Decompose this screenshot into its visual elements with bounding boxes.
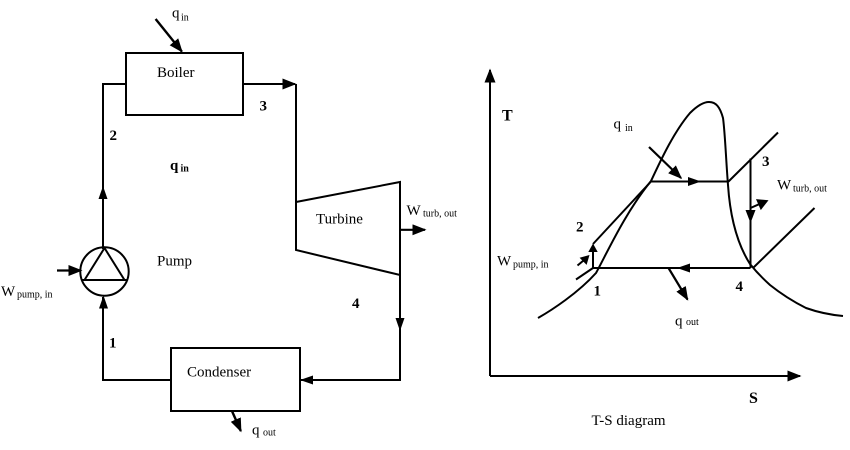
svg-text:4: 4 <box>352 296 360 312</box>
isobar return line from 4 <box>753 208 815 268</box>
wire condenser to pump (state 1) <box>103 297 171 380</box>
svg-text:turb, out: turb, out <box>793 184 827 195</box>
turbine trapezoid T <box>296 182 400 275</box>
arrow left into condenser <box>300 376 313 385</box>
pump chord line <box>82 279 127 281</box>
W_turb,out arrow <box>400 229 425 231</box>
boiler box B <box>126 53 243 115</box>
svg-text:Turbine: Turbine <box>316 212 363 228</box>
svg-text:pump, in: pump, in <box>513 260 549 271</box>
svg-text:out: out <box>686 317 699 328</box>
q_out heat arrow from condenser <box>232 411 241 431</box>
arrow down on expansion line <box>746 210 756 223</box>
wire boiler to pump (state 2) <box>103 84 126 249</box>
condensation line 4 to 1 <box>593 267 751 269</box>
arrow left on condensation line <box>677 264 690 273</box>
pump compression arrow 1 to 2 (T-S) <box>592 247 594 268</box>
svg-text:2: 2 <box>576 220 584 236</box>
turbine expansion line 3 to 4 <box>750 159 752 269</box>
q_out arrow (T-S) <box>669 268 688 300</box>
svg-text:turb, out: turb, out <box>423 209 457 220</box>
svg-text:q: q <box>614 117 622 133</box>
boiling line (top, with right arrow) <box>650 181 729 183</box>
svg-text:in: in <box>625 123 633 134</box>
economizer line 2 to saturation corner <box>593 182 651 245</box>
svg-text:Condenser: Condenser <box>187 365 251 381</box>
svg-text:q: q <box>252 423 260 439</box>
svg-text:4: 4 <box>736 279 744 295</box>
arrow up on state-2 wire <box>99 186 108 199</box>
W_pump,in small arrow (T-S) <box>578 261 584 266</box>
svg-text:out: out <box>263 428 276 439</box>
svg-text:Boiler: Boiler <box>157 65 195 81</box>
svg-text:2: 2 <box>110 128 118 144</box>
arrow up into pump bottom <box>99 296 108 309</box>
saturation dome curve <box>538 102 843 318</box>
svg-text:1: 1 <box>109 336 117 352</box>
svg-text:S: S <box>749 390 758 407</box>
svg-text:3: 3 <box>260 99 268 115</box>
svg-text:pump, in: pump, in <box>17 290 53 301</box>
arrow right on boiling line <box>688 177 701 186</box>
svg-text:q: q <box>675 314 683 330</box>
pump circle P <box>80 247 128 295</box>
svg-text:W: W <box>1 284 16 300</box>
condenser box C <box>171 348 300 411</box>
q_in arrow (T-S) <box>649 147 681 178</box>
wire down into turbine <box>295 84 297 203</box>
svg-text:3: 3 <box>762 154 770 170</box>
arrow down on state-4 wire <box>396 318 405 331</box>
svg-text:T: T <box>502 108 513 125</box>
W_pump,in arrow into pump <box>57 269 81 271</box>
q_in heat arrow into boiler <box>156 19 182 52</box>
svg-text:q: q <box>172 6 180 22</box>
wire boiler to turbine (state 3) <box>243 83 295 85</box>
S axis <box>490 375 800 377</box>
wire turbine to condenser (state 4) <box>300 275 400 380</box>
pump triangle <box>85 248 125 280</box>
svg-text:q: q <box>170 158 179 174</box>
svg-text:in: in <box>181 164 190 175</box>
svg-text:W: W <box>777 178 792 194</box>
svg-text:W: W <box>407 203 422 219</box>
svg-text:W: W <box>497 254 512 270</box>
superheat line through 3 <box>729 133 779 182</box>
T axis <box>489 70 491 376</box>
svg-text:Pump: Pump <box>157 254 192 270</box>
W_turb,out small arrow (T-S) <box>751 204 761 208</box>
short line below point 1 <box>576 268 593 280</box>
svg-text:1: 1 <box>594 284 602 300</box>
svg-text:T-S diagram: T-S diagram <box>592 413 666 429</box>
svg-text:in: in <box>181 13 189 24</box>
